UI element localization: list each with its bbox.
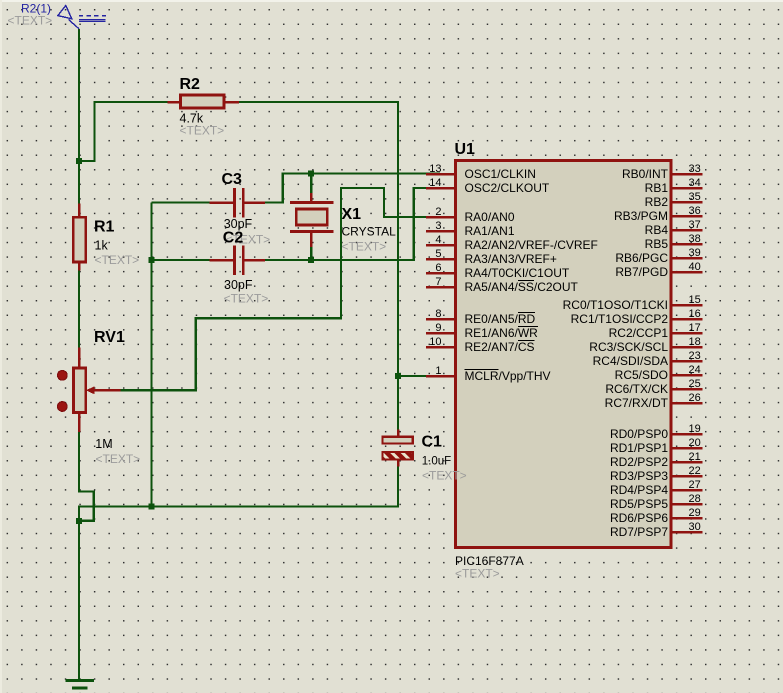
U1 pin 23 RC4/SDI/SDA [593,350,703,368]
svg-text:5: 5 [435,248,441,260]
svg-text:17: 17 [689,322,701,334]
U1 pin 36 RB3/PGM [614,205,702,223]
wire to pin 1 MCLR [398,375,440,377]
svg-text:RA2/AN2/VREF-/CVREF: RA2/AN2/VREF-/CVREF [465,238,598,252]
U1 pin 9 RE1/AN6/WR [426,322,538,340]
svg-text:25: 25 [689,378,701,390]
svg-text:RC3/SCK/SCL: RC3/SCK/SCL [589,340,668,354]
U1 pin 20 RD1/PSP1 [610,437,702,455]
svg-text:14: 14 [429,177,441,189]
U1 pin 2 RA0/AN0 [426,206,515,224]
svg-text:<TEXT>: <TEXT> [455,567,500,581]
svg-text:C1: C1 [422,434,443,451]
svg-text:1M: 1M [95,437,112,451]
svg-text:RV1: RV1 [94,329,125,346]
U1 pin 17 RC2/CCP1 [609,322,703,340]
svg-text:OSC2/CLKOUT: OSC2/CLKOUT [465,181,550,195]
U1 pin 18 RC3/SCK/SCL [589,336,702,354]
node crystal top junction [308,171,314,177]
U1 pin 27 RD4/PSP4 [610,479,702,497]
svg-text:22: 22 [689,465,701,477]
svg-text:40: 40 [689,261,701,273]
svg-text:RC7/RX/DT: RC7/RX/DT [605,396,669,410]
node crystal bottom junction [308,257,314,263]
wire R2 branch from rail [79,102,168,161]
svg-text:38: 38 [689,233,701,245]
svg-text:R2: R2 [180,76,201,93]
svg-text:C3: C3 [222,171,243,188]
svg-text:<TEXT>: <TEXT> [342,240,387,254]
svg-text:RB6/PGC: RB6/PGC [615,251,668,265]
svg-text:MCLR/Vpp/THV: MCLR/Vpp/THV [465,369,551,383]
capacitor C2 [152,246,266,276]
U1 pin 19 RD0/PSP0 [610,423,702,441]
svg-text:9: 9 [435,322,441,334]
svg-text:RD6/PSP6: RD6/PSP6 [610,511,668,525]
IC U1 PIC16F877A [456,161,672,548]
svg-text:RB5: RB5 [645,237,669,251]
U1 pin 37 RB4 [645,219,703,237]
U1 pin 21 RD2/PSP2 [610,451,702,469]
U1 pin 3 RA1/AN1 [426,220,515,238]
U1 pin 22 RD3/PSP3 [610,465,702,483]
svg-text:18: 18 [689,336,701,348]
svg-text:<TEXT>: <TEXT> [95,253,140,267]
svg-text:6: 6 [435,262,441,274]
U1 pin 7 RA5/AN4/SS/C2OUT [426,276,579,294]
svg-text:33: 33 [689,163,701,175]
svg-text:16: 16 [689,308,701,320]
U1 pin 24 RC5/SDO [615,364,703,382]
svg-text:21: 21 [689,451,701,463]
U1 pin 6 RA4/T0CKI/C1OUT [426,262,570,280]
U1 pin 40 RB7/PGD [615,261,702,279]
U1 pin 5 RA3/AN3/VREF+ [426,248,557,266]
svg-text:OSC1/CLKIN: OSC1/CLKIN [465,167,536,181]
svg-text:27: 27 [689,479,701,491]
svg-text:RB0/INT: RB0/INT [622,167,669,181]
svg-text:26: 26 [689,392,701,404]
svg-text:1.0uF: 1.0uF [422,456,451,468]
svg-text:RE2/AN7/CS: RE2/AN7/CS [465,340,535,354]
svg-text:RB4: RB4 [645,223,669,237]
wire C3 to OSC1 [265,174,440,203]
wire RV1 wiper to RA0 [121,188,441,390]
svg-text:RA3/AN3/VREF+: RA3/AN3/VREF+ [465,252,557,266]
wire ground bus [79,467,398,521]
svg-text:RC4/SDI/SDA: RC4/SDI/SDA [593,354,668,368]
potentiometer RV1 [58,348,121,433]
U1 pin 33 RB0/INT [622,163,702,181]
svg-text:RD4/PSP4: RD4/PSP4 [610,483,668,497]
svg-text:10: 10 [429,336,441,348]
U1 pin 30 RD7/PSP7 [610,521,702,539]
svg-text:13: 13 [429,163,441,175]
svg-text:15: 15 [689,294,701,306]
svg-text:<TEXT>: <TEXT> [224,291,269,305]
U1 pin 29 RD6/PSP6 [610,507,702,525]
U1 pin 10 RE2/AN7/CS [426,336,535,354]
svg-text:RC5/SDO: RC5/SDO [615,368,668,382]
wire RV1 bottom + jog to ground [79,432,94,681]
U1 pin 8 RE0/AN5/RD [426,308,536,326]
svg-text:C2: C2 [223,230,244,247]
svg-text:RD0/PSP0: RD0/PSP0 [610,427,668,441]
svg-text:RB2: RB2 [645,195,669,209]
U1 pin 1 MCLR/Vpp/THV [426,365,551,383]
U1 pin 38 RB5 [645,233,703,251]
U1 pin 25 RC6/TX/CK [605,378,702,396]
svg-text:8: 8 [435,308,441,320]
wire C3 C2 left rail [150,203,152,507]
U1 pin 4 RA2/AN2/VREF-/CVREF [426,234,598,252]
svg-text:RB7/PGD: RB7/PGD [615,265,668,279]
wire rail to C1 [397,376,399,430]
svg-text:RB3/PGM: RB3/PGM [614,209,668,223]
svg-text:4: 4 [435,234,441,246]
svg-text:30pF: 30pF [224,278,253,292]
svg-text:RC1/T1OSI/CCP2: RC1/T1OSI/CCP2 [571,312,669,326]
node C2 tap [149,257,155,263]
U1 pin 28 RD5/PSP5 [610,493,702,511]
svg-text:20: 20 [689,437,701,449]
svg-text:X1: X1 [342,206,362,223]
ground [65,681,94,689]
capacitor C3 [152,188,266,218]
resistor R1 [73,204,86,271]
node jog junction [76,518,82,524]
svg-text:36: 36 [689,205,701,217]
wire rail R1 to RV1 [78,271,80,348]
svg-text:RC0/T1OSO/T1CKI: RC0/T1OSO/T1CKI [563,298,668,312]
svg-text:28: 28 [689,493,701,505]
U1 pin 16 RC1/T1OSI/CCP2 [571,308,703,326]
wire C2 to OSC2 [265,188,440,260]
U1 pin 13 OSC1/CLKIN [426,163,536,181]
U1 pin 39 RB6/PGC [615,247,702,265]
svg-text:1k: 1k [95,239,109,253]
U1 pin 34 RB1 [645,177,703,195]
crystal X1 [290,174,334,261]
svg-text:<TEXT>: <TEXT> [422,469,467,483]
svg-text:<TEXT>: <TEXT> [180,124,225,138]
svg-text:<TEXT>: <TEXT> [96,452,141,466]
resistor R2 [168,95,239,108]
svg-text:RD5/PSP5: RD5/PSP5 [610,497,668,511]
svg-text:19: 19 [689,423,701,435]
svg-text:RB1: RB1 [645,181,669,195]
svg-text:RD3/PSP3: RD3/PSP3 [610,469,668,483]
svg-text:29: 29 [689,507,701,519]
node MCLR junction [395,373,401,379]
svg-text:37: 37 [689,219,701,231]
svg-text:RE0/AN5/RD: RE0/AN5/RD [465,312,536,326]
svg-text:RE1/AN6/WR: RE1/AN6/WR [465,326,539,340]
node R2 branch junction [76,158,82,164]
svg-text:35: 35 [689,191,701,203]
svg-text:RA1/AN1: RA1/AN1 [465,224,515,238]
svg-text:2: 2 [435,206,441,218]
svg-text:24: 24 [689,364,701,376]
svg-text:39: 39 [689,247,701,259]
svg-text:1: 1 [435,365,441,377]
wire R2 right to vertical rail [239,102,398,376]
svg-text:U1: U1 [455,141,476,158]
svg-text:RD7/PSP7: RD7/PSP7 [610,525,668,539]
svg-text:CRYSTAL: CRYSTAL [342,225,397,239]
svg-text:7: 7 [435,276,441,288]
terminal R2(1) [58,6,107,29]
svg-text:<TEXT>: <TEXT> [8,14,53,28]
U1 pin 15 RC0/T1OSO/T1CKI [563,294,703,312]
svg-text:RD2/PSP2: RD2/PSP2 [610,455,668,469]
svg-text:30: 30 [689,521,701,533]
svg-text:34: 34 [689,177,701,189]
svg-text:RA4/T0CKI/C1OUT: RA4/T0CKI/C1OUT [465,266,570,280]
svg-text:RC2/CCP1: RC2/CCP1 [609,326,669,340]
svg-text:RC6/TX/CK: RC6/TX/CK [605,382,668,396]
U1 pin 35 RB2 [645,191,703,209]
U1 pin 14 OSC2/CLKOUT [426,177,550,195]
U1 pin 26 RC7/RX/DT [605,392,703,410]
capacitor C1 [382,430,412,467]
svg-text:23: 23 [689,350,701,362]
svg-text:RD1/PSP1: RD1/PSP1 [610,441,668,455]
node C2C3 rail to bus [149,504,155,510]
wire main left rail [78,29,80,204]
svg-text:RA5/AN4/SS/C2OUT: RA5/AN4/SS/C2OUT [465,280,579,294]
svg-text:3: 3 [435,220,441,232]
svg-text:R1: R1 [94,219,115,236]
svg-text:RA0/AN0: RA0/AN0 [465,210,515,224]
